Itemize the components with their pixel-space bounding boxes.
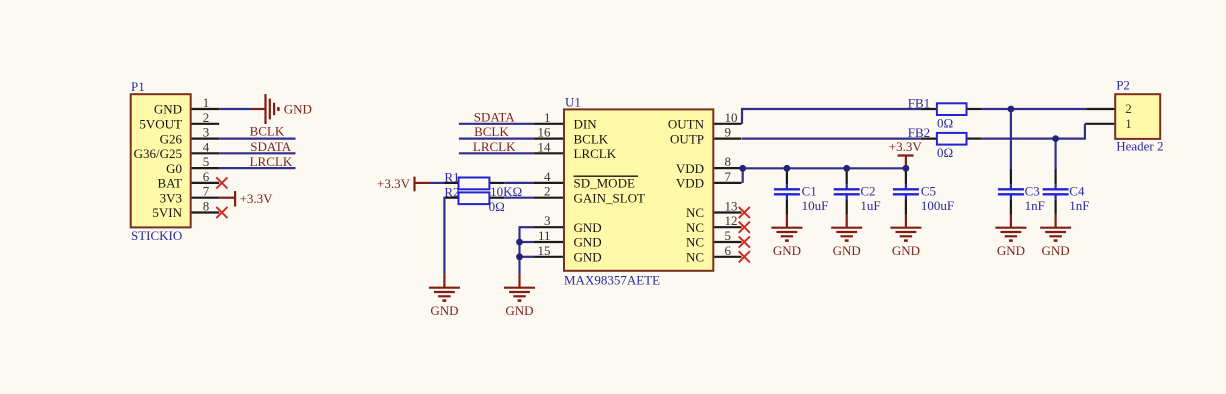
svg-text:P2: P2 <box>1116 78 1130 93</box>
svg-text:+3.3V: +3.3V <box>240 191 274 206</box>
svg-text:7: 7 <box>203 184 210 199</box>
svg-text:SD_MODE: SD_MODE <box>574 176 635 191</box>
svg-text:0Ω: 0Ω <box>489 199 505 214</box>
svg-text:100uF: 100uF <box>921 198 954 213</box>
svg-text:GND: GND <box>505 303 533 318</box>
svg-text:U1: U1 <box>565 95 581 110</box>
svg-text:FB1: FB1 <box>908 95 930 110</box>
svg-text:MAX98357AETE: MAX98357AETE <box>564 273 660 288</box>
svg-text:G36/G25: G36/G25 <box>134 146 182 161</box>
svg-text:VDD: VDD <box>676 176 704 191</box>
svg-text:2: 2 <box>1125 101 1132 116</box>
svg-text:16: 16 <box>538 125 552 140</box>
svg-text:1nF: 1nF <box>1025 198 1045 213</box>
svg-text:C1: C1 <box>802 183 817 198</box>
svg-text:5: 5 <box>725 228 732 243</box>
svg-text:10: 10 <box>725 110 738 125</box>
svg-text:4: 4 <box>203 139 210 154</box>
svg-text:GND: GND <box>154 102 182 117</box>
svg-text:2: 2 <box>544 184 551 199</box>
svg-text:5: 5 <box>203 154 210 169</box>
svg-text:C5: C5 <box>921 183 936 198</box>
svg-text:R1: R1 <box>444 170 459 185</box>
svg-text:GND: GND <box>284 102 312 117</box>
svg-text:10KΩ: 10KΩ <box>490 184 522 199</box>
svg-text:4: 4 <box>544 169 551 184</box>
svg-text:GND: GND <box>574 235 602 250</box>
svg-text:8: 8 <box>725 154 732 169</box>
svg-text:1: 1 <box>544 110 551 125</box>
svg-text:1: 1 <box>203 95 210 110</box>
svg-text:BCLK: BCLK <box>574 131 609 146</box>
svg-text:+3.3V: +3.3V <box>377 176 411 191</box>
svg-text:P1: P1 <box>131 79 145 94</box>
svg-text:GAIN_SLOT: GAIN_SLOT <box>574 190 646 205</box>
svg-text:3V3: 3V3 <box>160 190 182 205</box>
svg-text:SDATA: SDATA <box>474 109 515 124</box>
svg-text:1: 1 <box>1125 116 1132 131</box>
svg-text:GND: GND <box>833 243 861 258</box>
svg-text:LRCLK: LRCLK <box>250 154 293 169</box>
svg-text:3: 3 <box>203 125 210 140</box>
svg-text:14: 14 <box>538 139 552 154</box>
svg-text:0Ω: 0Ω <box>937 116 953 131</box>
svg-text:GND: GND <box>773 243 801 258</box>
svg-text:VDD: VDD <box>676 161 704 176</box>
svg-text:Header 2: Header 2 <box>1116 139 1163 154</box>
svg-text:GND: GND <box>574 220 602 235</box>
svg-text:GND: GND <box>574 250 602 265</box>
svg-text:0Ω: 0Ω <box>937 145 953 160</box>
svg-text:C3: C3 <box>1025 183 1040 198</box>
svg-text:BCLK: BCLK <box>474 124 509 139</box>
svg-text:G0: G0 <box>166 161 182 176</box>
svg-text:SDATA: SDATA <box>250 139 291 154</box>
svg-text:GND: GND <box>1042 243 1070 258</box>
svg-text:10uF: 10uF <box>802 198 829 213</box>
svg-text:5VOUT: 5VOUT <box>139 117 182 132</box>
svg-text:C2: C2 <box>860 183 875 198</box>
svg-text:6: 6 <box>203 169 210 184</box>
svg-text:NC: NC <box>686 250 704 265</box>
svg-text:NC: NC <box>686 220 704 235</box>
svg-text:STICKIO: STICKIO <box>131 228 182 243</box>
svg-text:OUTP: OUTP <box>670 131 704 146</box>
svg-text:C4: C4 <box>1069 183 1085 198</box>
svg-text:NC: NC <box>686 205 704 220</box>
svg-text:15: 15 <box>538 243 551 258</box>
svg-text:7: 7 <box>725 169 732 184</box>
svg-text:GND: GND <box>997 243 1025 258</box>
svg-text:11: 11 <box>538 228 551 243</box>
svg-text:2: 2 <box>203 110 210 125</box>
svg-text:BCLK: BCLK <box>250 123 285 138</box>
svg-text:NC: NC <box>686 235 704 250</box>
svg-text:1nF: 1nF <box>1069 198 1089 213</box>
svg-text:R2: R2 <box>444 185 459 200</box>
svg-text:LRCLK: LRCLK <box>574 146 617 161</box>
svg-text:5VIN: 5VIN <box>152 205 182 220</box>
svg-text:G26: G26 <box>160 131 183 146</box>
svg-text:OUTN: OUTN <box>668 117 705 132</box>
svg-text:LRCLK: LRCLK <box>473 139 516 154</box>
svg-text:9: 9 <box>725 125 732 140</box>
svg-text:GND: GND <box>430 303 458 318</box>
svg-text:1uF: 1uF <box>860 198 880 213</box>
svg-text:DIN: DIN <box>574 117 598 132</box>
svg-text:6: 6 <box>725 243 732 258</box>
svg-text:13: 13 <box>725 199 738 214</box>
svg-text:+3.3V: +3.3V <box>889 139 923 154</box>
svg-text:FB2: FB2 <box>908 125 930 140</box>
svg-text:GND: GND <box>892 243 920 258</box>
svg-text:BAT: BAT <box>157 176 182 191</box>
svg-text:8: 8 <box>203 199 210 214</box>
svg-text:12: 12 <box>725 213 738 228</box>
svg-text:3: 3 <box>544 213 551 228</box>
